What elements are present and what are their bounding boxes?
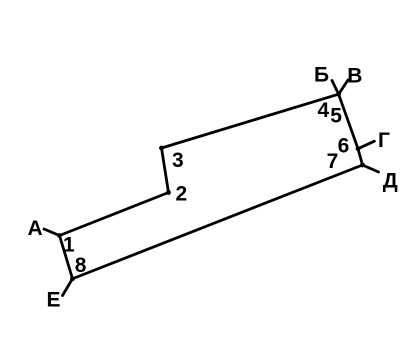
- node E corner dot: [70, 276, 75, 281]
- node angle2 corner dot: [166, 190, 171, 195]
- wire segment E corner to A corner: [60, 236, 73, 279]
- svg-text:8: 8: [75, 254, 87, 277]
- wire segment angle2 corner to angle3 corner: [162, 148, 169, 193]
- wire tick to label D(Д): [363, 165, 379, 172]
- node angle3 corner dot: [159, 146, 164, 151]
- wire tick to label B(Б): [332, 81, 339, 95]
- svg-text:2: 2: [175, 182, 187, 205]
- wire tick to label A: [44, 229, 60, 236]
- svg-text:4: 4: [317, 99, 329, 122]
- svg-text:Е: Е: [46, 289, 60, 312]
- svg-text:Б: Б: [314, 64, 329, 87]
- wire segment G point to D corner: [358, 149, 363, 165]
- svg-text:7: 7: [327, 150, 339, 173]
- svg-text:Г: Г: [378, 129, 390, 152]
- svg-text:1: 1: [63, 234, 75, 257]
- wire segment D corner to E corner: [73, 165, 363, 279]
- node B/V corner dot: [336, 92, 341, 97]
- svg-text:6: 6: [338, 135, 350, 158]
- wire segment B/V corner to G point: [339, 94, 358, 149]
- svg-text:Д: Д: [383, 169, 398, 192]
- wire tick to label V(В): [339, 80, 348, 94]
- wire tick to label G(Г): [358, 141, 374, 149]
- wire tick to label E: [63, 279, 73, 296]
- svg-text:В: В: [347, 65, 362, 88]
- node D corner dot: [360, 163, 365, 168]
- node A corner dot: [57, 233, 62, 238]
- wire segment A-corner to angle2 corner: [60, 193, 169, 236]
- svg-text:3: 3: [172, 149, 184, 172]
- node G point dot: [356, 146, 361, 151]
- svg-text:А: А: [28, 217, 43, 240]
- wire segment angle3 corner to B/V corner: [162, 94, 339, 148]
- svg-text:5: 5: [330, 104, 342, 127]
